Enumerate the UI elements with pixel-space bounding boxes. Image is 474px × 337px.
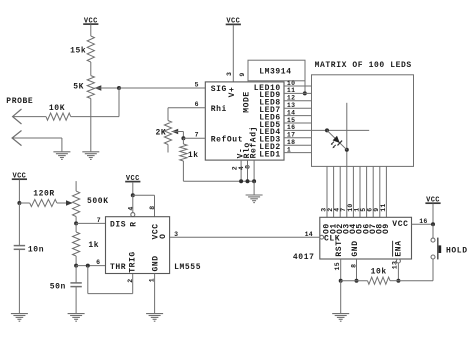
svg-text:1k: 1k xyxy=(188,151,199,160)
wire RST to ground xyxy=(340,281,342,314)
junction TRIG tie xyxy=(86,264,90,268)
pin label R xyxy=(129,221,138,226)
pin label O (out) xyxy=(159,233,168,238)
pin 15 number xyxy=(334,262,341,270)
svg-text:8: 8 xyxy=(149,206,156,210)
pin label O6 xyxy=(362,223,371,234)
value label 1k (ref) xyxy=(188,151,199,160)
svg-text:THR: THR xyxy=(110,263,126,272)
wire VCC to LM3914 V+ pin 3 xyxy=(232,25,234,82)
wire LED9 pin 11 xyxy=(284,92,312,94)
svg-text:R: R xyxy=(129,221,138,226)
power VCC rail (top left) xyxy=(83,17,98,25)
pin label V+ xyxy=(228,87,237,98)
svg-text:15: 15 xyxy=(334,262,341,270)
pin label O3 xyxy=(343,223,352,234)
wire LED10 pin 10 xyxy=(284,85,312,87)
pin 6 number (555) xyxy=(96,259,100,266)
junction GND bus xyxy=(355,279,359,283)
value label 2K xyxy=(155,128,166,137)
pin 9 number xyxy=(239,72,246,76)
pin 4 number xyxy=(334,208,341,212)
pin 8 number (555) xyxy=(149,206,156,210)
pin label O7 xyxy=(369,223,378,234)
ground (50n) xyxy=(68,314,85,322)
wire LED6 pin 14 xyxy=(284,115,312,117)
pin label TRIG xyxy=(129,251,138,273)
wire Rhi pin 6 to 2K xyxy=(168,108,205,121)
wire TRIG loop xyxy=(88,266,133,294)
value label 10K xyxy=(49,104,65,113)
resistor 10k xyxy=(368,277,391,284)
label LM555 xyxy=(174,263,201,272)
value label 120R xyxy=(33,190,55,199)
svg-text:Rhi: Rhi xyxy=(211,105,227,114)
pin label LED3 xyxy=(259,136,281,145)
svg-text:MATRIX OF 100 LEDS: MATRIX OF 100 LEDS xyxy=(315,61,412,70)
pin 11 number xyxy=(287,87,295,94)
wire matrix column 3 to 4017 pin 7 xyxy=(346,166,348,217)
wire LED4 pin 16 xyxy=(284,129,369,131)
wire matrix column 9 to 4017 pin 11 xyxy=(385,166,387,217)
pin 18 number xyxy=(287,139,295,146)
node LED anode xyxy=(325,128,329,132)
resistor 120R xyxy=(30,199,57,206)
svg-text:ENA: ENA xyxy=(394,240,403,256)
wire VCC down to pin16 node xyxy=(432,204,434,225)
svg-text:5: 5 xyxy=(195,81,199,88)
pin 2 number xyxy=(327,208,334,212)
matrix box xyxy=(312,75,414,167)
svg-text:15: 15 xyxy=(287,117,295,124)
wire ground bus (LM3914) xyxy=(183,180,254,182)
pin 4 number (555) xyxy=(127,206,134,210)
svg-text:13: 13 xyxy=(287,102,295,109)
resistor 10K xyxy=(46,113,71,120)
power VCC rail (LM3914) xyxy=(226,18,241,26)
pin 13 number xyxy=(392,261,399,269)
pin label ENA xyxy=(393,240,404,256)
probe tip arrow xyxy=(13,109,22,124)
pin 14 number xyxy=(305,231,313,238)
wire 10k to ENA node xyxy=(390,280,398,282)
pin 1 number (555) xyxy=(149,278,156,282)
junction pin 4 bus xyxy=(246,179,250,183)
capacitor 10n xyxy=(14,203,25,313)
pin label LED6 xyxy=(259,113,281,122)
ground (LM3914) xyxy=(246,195,263,203)
wire node to switch xyxy=(432,224,434,238)
ground (5K pot) xyxy=(82,152,99,160)
junction RST bus xyxy=(339,279,343,283)
wire node A to LM3914 pin 5 xyxy=(119,87,205,89)
pin 2 number xyxy=(232,166,239,170)
svg-text:PROBE: PROBE xyxy=(6,97,33,106)
pin 7 number xyxy=(340,208,347,212)
svg-text:50n: 50n xyxy=(50,283,66,292)
pin label O9 xyxy=(382,223,391,234)
node D junction (1k/50n/THR) xyxy=(74,264,78,268)
pin 11 number xyxy=(380,203,387,211)
pin label LED7 xyxy=(259,106,281,115)
wire matrix column 2 to 4017 pin 4 xyxy=(339,166,341,217)
wire ENA node to HOLD bottom xyxy=(398,259,433,281)
junction pin16/VCC xyxy=(431,222,435,226)
pin label O1 xyxy=(329,223,338,234)
wire LED column stub xyxy=(346,103,348,167)
svg-text:11: 11 xyxy=(380,203,387,211)
ground (555) xyxy=(146,314,163,322)
svg-text:2K: 2K xyxy=(155,128,166,137)
svg-text:11: 11 xyxy=(287,87,295,94)
wire GND pin 1 to ground xyxy=(154,274,156,314)
svg-text:TRIG: TRIG xyxy=(129,251,138,273)
pin 5 number xyxy=(360,208,367,212)
pin label LED5 xyxy=(259,121,281,130)
svg-text:SIG: SIG xyxy=(211,85,227,94)
wire 10K to node A column xyxy=(71,116,119,118)
pin 9 number xyxy=(373,208,380,212)
wire 15k to 5K pot xyxy=(90,62,92,76)
wire matrix column 4 to 4017 pin 10 xyxy=(352,166,354,217)
pin 17 number xyxy=(287,132,295,139)
svg-text:1k: 1k xyxy=(88,241,99,250)
pin label CLK xyxy=(324,235,340,244)
pin label V- xyxy=(236,148,245,159)
wire Rlo pin 4 down xyxy=(247,160,249,181)
potentiometer 500K xyxy=(73,181,80,223)
power VCC rail (555) xyxy=(125,175,140,183)
junction pin 8 bus xyxy=(252,179,256,183)
ground (probe clip) xyxy=(53,152,70,160)
wire 2K wiper to RefOut node xyxy=(172,132,184,139)
svg-text:5K: 5K xyxy=(73,83,84,92)
pin 1 number xyxy=(353,208,360,212)
wire V- pin 2 down xyxy=(240,160,242,181)
wire MODE pin 9 stub xyxy=(247,81,249,83)
wire LED1 pin 1 xyxy=(284,152,312,154)
wire matrix column 7 to 4017 pin 6 xyxy=(372,166,374,217)
reset bubble pin 4 xyxy=(131,213,135,217)
label HOLD xyxy=(446,247,468,256)
pin label LED2 xyxy=(259,143,281,152)
pin label RST xyxy=(335,240,344,256)
pin label LED1 xyxy=(259,150,281,159)
svg-text:6: 6 xyxy=(96,259,100,266)
CLK bubble xyxy=(320,235,324,239)
svg-text:4017: 4017 xyxy=(293,253,315,262)
pin 6 number xyxy=(367,208,374,212)
node C junction (500K/1k/DIS) xyxy=(74,221,78,225)
wire 5K wiper to node A xyxy=(95,87,120,89)
label MATRIX OF 100 LEDS xyxy=(315,61,412,70)
wire node D to 555 THR pin 6 xyxy=(76,265,105,267)
pin 15 number xyxy=(287,117,295,124)
node E junction (VCC/R/VCC8) xyxy=(131,193,135,197)
wire LED5 pin 15 xyxy=(284,122,312,124)
value label 500K xyxy=(87,197,109,206)
resistor 1k (ref) xyxy=(180,138,187,181)
pin label LED10 xyxy=(254,84,281,93)
pin 10 number xyxy=(347,203,354,211)
wire 120R to 500K wiper xyxy=(57,200,73,206)
svg-text:VCC: VCC xyxy=(392,220,408,229)
svg-text:10K: 10K xyxy=(49,104,65,113)
potentiometer 5K xyxy=(87,76,101,99)
wire RST pin 15 down xyxy=(340,259,342,281)
svg-text:8: 8 xyxy=(245,165,252,169)
LED D1 xyxy=(327,130,347,149)
svg-text:HOLD: HOLD xyxy=(446,247,468,256)
pin 6 number xyxy=(195,101,199,108)
wire matrix column 0 to 4017 pin 3 xyxy=(326,166,328,217)
svg-text:10: 10 xyxy=(287,80,295,87)
value label 10n xyxy=(28,246,44,255)
svg-text:LM555: LM555 xyxy=(174,263,201,272)
pin 4 number xyxy=(238,166,245,170)
label 4017 xyxy=(293,253,315,262)
pin label GND (555) xyxy=(151,255,160,271)
pin label O4 xyxy=(349,223,358,234)
resistor 15k xyxy=(87,36,94,62)
pin 16 number xyxy=(287,124,295,131)
wire LED7 pin 13 xyxy=(284,107,312,109)
pin label GND (4017) xyxy=(351,240,360,256)
value label 5K xyxy=(73,83,84,92)
ENA bubble xyxy=(396,259,400,263)
label PROBE xyxy=(6,97,33,106)
node RefOut junction xyxy=(181,136,185,140)
pin 3 number xyxy=(226,72,233,76)
wire GND pin 8 down xyxy=(356,259,358,281)
wire pin 16 to VCC node xyxy=(412,223,434,225)
wire LED2 pin 18 xyxy=(284,144,312,146)
node A junction (wiper/probe) xyxy=(117,86,121,90)
junction ENA bus xyxy=(396,279,400,283)
HOLD switch xyxy=(431,238,441,260)
svg-text:17: 17 xyxy=(287,132,295,139)
wire node E to pin 8 xyxy=(133,195,155,217)
pin label VCC (4017) xyxy=(392,220,408,229)
svg-text:V+: V+ xyxy=(228,87,237,98)
pin 5 number xyxy=(195,81,199,88)
pin label O8 xyxy=(376,223,385,234)
pin 16 number xyxy=(419,218,427,225)
pin label THR xyxy=(110,263,126,272)
pin label O0 xyxy=(323,223,332,234)
wire VCC to node B xyxy=(18,180,20,203)
pin label O2 xyxy=(336,223,345,234)
value label 50n xyxy=(50,283,66,292)
svg-text:1: 1 xyxy=(287,146,291,153)
power VCC rail (HOLD) xyxy=(425,196,440,204)
wire node A down to 10K xyxy=(118,88,120,117)
svg-text:4: 4 xyxy=(127,206,134,210)
wire RefAdj pin 8 down xyxy=(253,160,255,181)
pin label RefOut xyxy=(211,135,243,144)
pin 2 number (555) xyxy=(127,279,134,283)
svg-text:MODE: MODE xyxy=(242,91,251,113)
svg-text:GND: GND xyxy=(351,240,360,256)
LM3914 name box xyxy=(248,60,305,81)
svg-text:RST: RST xyxy=(335,240,344,256)
svg-text:RefOut: RefOut xyxy=(211,135,243,144)
wire matrix column 1 to 4017 pin 2 xyxy=(333,166,335,217)
svg-text:DIS: DIS xyxy=(110,221,126,230)
potentiometer 2K xyxy=(164,121,178,153)
svg-text:12: 12 xyxy=(287,95,295,102)
pin 14 number xyxy=(287,109,295,116)
svg-text:O9: O9 xyxy=(382,223,391,234)
svg-text:10n: 10n xyxy=(28,246,44,255)
svg-text:16: 16 xyxy=(287,124,295,131)
svg-text:RefAdj: RefAdj xyxy=(250,126,259,158)
pin label LED8 xyxy=(259,99,281,108)
pin label Rlo xyxy=(243,142,252,158)
pin 8 number xyxy=(245,165,252,169)
pin label RefAdj xyxy=(250,126,259,158)
wire matrix column 8 to 4017 pin 9 xyxy=(379,166,381,217)
pin label VCC (555) xyxy=(152,223,161,239)
node LED cathode xyxy=(345,148,349,152)
svg-text:9: 9 xyxy=(239,72,246,76)
wire ground clip xyxy=(12,138,62,152)
pin label Rhi xyxy=(211,105,227,114)
wire RefOut pin 7 xyxy=(183,137,205,139)
svg-text:10k: 10k xyxy=(371,267,387,276)
svg-text:7: 7 xyxy=(97,217,101,224)
wire name-box to LED9 node xyxy=(304,81,306,94)
pin 3 number xyxy=(320,208,327,212)
wire bus to ground xyxy=(253,181,255,195)
svg-text:LM3914: LM3914 xyxy=(259,68,291,77)
svg-text:6: 6 xyxy=(195,101,199,108)
pin 8 number xyxy=(351,264,358,268)
svg-text:3: 3 xyxy=(226,72,233,76)
wire VCC to 15k xyxy=(90,25,92,37)
svg-text:O: O xyxy=(159,233,168,238)
pin label LED4 xyxy=(259,128,281,137)
svg-text:14: 14 xyxy=(287,109,295,116)
value label 1k (timing) xyxy=(88,241,99,250)
pin 7 number xyxy=(195,132,199,139)
label LM3914 xyxy=(259,68,291,77)
value label 10k xyxy=(371,267,387,276)
pin 7 number (555) xyxy=(97,217,101,224)
wire matrix column 5 to 4017 pin 1 xyxy=(359,166,361,217)
ground (4017) xyxy=(332,314,349,322)
wire matrix column 6 to 4017 pin 5 xyxy=(366,166,368,217)
wire ENA pin 13 down xyxy=(397,263,399,281)
LM3914 body xyxy=(205,82,284,160)
svg-text:GND: GND xyxy=(151,255,160,271)
pin 13 number xyxy=(287,102,295,109)
svg-text:120R: 120R xyxy=(33,190,55,199)
wire 555 OUT to 4017 CLK pin 14 xyxy=(170,236,320,238)
wire LED3 pin 17 xyxy=(284,137,312,139)
junction pin 2 bus xyxy=(239,179,243,183)
value label 15k xyxy=(70,47,86,56)
ground (10n) xyxy=(11,314,28,322)
pin label O5 xyxy=(356,223,365,234)
wire VCC to node E xyxy=(132,182,134,195)
svg-text:2: 2 xyxy=(127,279,134,283)
pin 10 number xyxy=(287,80,295,87)
pin 3 number (555) xyxy=(174,231,178,238)
svg-text:500K: 500K xyxy=(87,197,109,206)
pin label MODE xyxy=(242,91,251,113)
power VCC rail (bottom left) xyxy=(12,172,27,180)
probe ground-clip arrow xyxy=(12,131,21,146)
svg-text:3: 3 xyxy=(174,231,178,238)
junction on LED9 net xyxy=(303,91,307,95)
LM555 body xyxy=(106,217,170,274)
svg-text:7: 7 xyxy=(195,132,199,139)
wire node E to reset bubble xyxy=(132,195,134,213)
pin label DIS xyxy=(110,221,126,230)
wire node C to 555 DIS pin 7 xyxy=(76,222,105,224)
svg-text:LED1: LED1 xyxy=(259,150,281,159)
wire LED8 pin 12 xyxy=(284,100,312,102)
pin 1 number xyxy=(287,146,291,153)
wire node B to 120R xyxy=(19,202,29,204)
node B junction (VCC/120R/10n) xyxy=(17,201,21,205)
capacitor 50n xyxy=(70,266,81,314)
svg-text:15k: 15k xyxy=(70,47,86,56)
wire 5K bottom to ground xyxy=(90,99,92,152)
4017 body xyxy=(320,217,412,259)
pin 12 number xyxy=(287,95,295,102)
resistor 1k (timing) xyxy=(73,223,80,265)
wire probe tip to 10K xyxy=(13,116,46,118)
pin label SIG xyxy=(211,85,227,94)
pin label LED9 xyxy=(259,91,281,100)
svg-text:18: 18 xyxy=(287,139,295,146)
wire bus RST-GND-10k xyxy=(341,280,368,282)
